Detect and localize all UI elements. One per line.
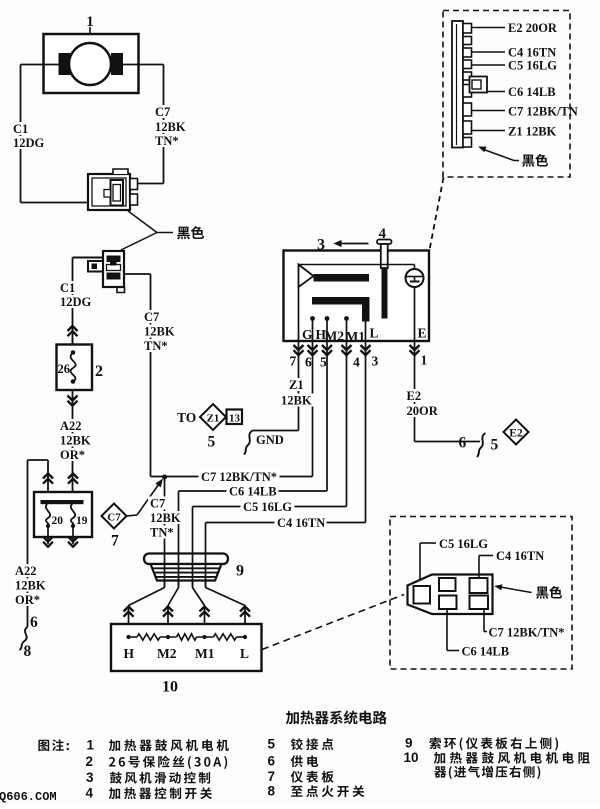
switch element 19 <box>71 503 75 526</box>
svg-text:5: 5 <box>320 355 327 370</box>
legend 8: to ignition switch <box>291 785 364 797</box>
svg-text:12BK: 12BK <box>281 394 312 408</box>
connector cavity top-left <box>439 578 456 591</box>
motor armature circle <box>69 43 111 85</box>
arrows below slide control left <box>43 537 53 542</box>
leader Z1 12BK <box>472 130 506 132</box>
diamond C7 (instrument panel) <box>102 504 127 529</box>
svg-text:C7: C7 <box>107 512 121 524</box>
svg-text:C1: C1 <box>60 281 75 295</box>
leader to black label <box>481 149 514 161</box>
connector A center plug <box>111 180 124 206</box>
wiper wedge contact <box>299 265 314 288</box>
connector comb spine <box>452 21 463 148</box>
svg-text:2: 2 <box>95 363 103 380</box>
svg-text:6: 6 <box>305 355 312 370</box>
wire C1 into connector B <box>73 257 104 259</box>
wire from C7 diamond <box>127 515 138 516</box>
svg-text:C1: C1 <box>13 122 28 136</box>
wire 4 through grommet <box>205 554 207 588</box>
svg-text:4: 4 <box>353 355 360 370</box>
svg-text:26: 26 <box>58 362 71 376</box>
wire fan to M1 <box>193 588 205 606</box>
label A22 <box>13 564 41 577</box>
connector A right tab upper <box>130 179 138 190</box>
dashed detail box (switch connector) <box>443 11 570 178</box>
svg-text:10: 10 <box>162 679 178 696</box>
label 12BK <box>58 434 93 447</box>
svg-text:E2: E2 <box>509 428 523 440</box>
wire from pin 6 H down <box>312 341 314 477</box>
label TN* near diamond <box>148 526 174 539</box>
switch inner feed line <box>299 264 415 266</box>
arrowhead for label 3 <box>334 240 342 247</box>
arrowhead at connector <box>494 584 502 590</box>
comb terminal tooth <box>463 72 472 80</box>
leader black arrow <box>498 587 532 593</box>
legend 3: blower slide control <box>110 772 210 784</box>
svg-text:OR*: OR* <box>60 448 85 462</box>
wire from pin 5 M2 down <box>326 341 328 491</box>
connector chevrons at switch pin <box>410 345 420 350</box>
svg-text:Z1 12BK: Z1 12BK <box>508 125 557 139</box>
wire C7 12BK/TN down <box>150 274 152 477</box>
leader C4 16TN horizontal <box>479 555 493 557</box>
terminal 20 <box>46 524 50 528</box>
svg-text:C5 16LG: C5 16LG <box>439 537 488 551</box>
connector chevrons at switch pin <box>322 345 332 350</box>
label 20OR <box>405 404 439 417</box>
svg-text:4: 4 <box>86 786 94 801</box>
svg-text:A22: A22 <box>60 419 82 433</box>
dashed leader to switch <box>430 178 444 251</box>
resistor bus segment <box>237 636 246 638</box>
svg-text:12DG: 12DG <box>13 136 45 150</box>
svg-text:M1: M1 <box>346 329 366 344</box>
wire stub above slide control left <box>47 460 49 492</box>
wire below slide control left <box>47 526 49 544</box>
legend 4: heater control switch <box>109 787 212 799</box>
svg-text:6: 6 <box>459 435 467 452</box>
fuse element S-curve <box>71 353 76 382</box>
leader C6 14LB <box>487 91 505 93</box>
arrowhead at junction <box>155 479 163 488</box>
connector chevrons at switch pin <box>342 345 352 350</box>
comb spine inner line <box>456 24 458 145</box>
svg-text:12BK: 12BK <box>15 579 46 593</box>
illumination lamp <box>406 269 424 287</box>
svg-text:H: H <box>124 646 135 661</box>
hinge point squiggle <box>477 433 486 457</box>
arrowhead at comb <box>478 147 487 153</box>
svg-text:9: 9 <box>405 736 413 751</box>
svg-text:C7: C7 <box>155 105 170 119</box>
grommet body <box>151 564 222 581</box>
leader C5 16LG vertical <box>419 543 421 580</box>
comb terminal tooth <box>463 24 472 34</box>
dashed leader to resistor connector detail <box>262 595 404 650</box>
connector A housing (upper black connector) <box>88 174 130 210</box>
svg-text:7: 7 <box>268 769 276 784</box>
label 12BK <box>279 394 314 407</box>
label C1 <box>11 122 29 135</box>
svg-text:L: L <box>240 646 249 661</box>
label C5 16LG <box>241 499 295 514</box>
leader C5 16LG horizontal <box>420 542 436 544</box>
svg-text:G: G <box>302 327 313 342</box>
leader C7 12BK/TN* horizontal <box>484 631 487 633</box>
slide control contact bar <box>41 500 84 504</box>
wire C1 12DG vertical <box>20 65 22 203</box>
connector A right tab lower <box>130 194 138 205</box>
hinge squiggle to ignition <box>20 627 28 650</box>
wire C7 12BK/TN horizontal into connector <box>137 183 164 185</box>
wire into resistor H <box>128 607 130 638</box>
svg-text:C7 12BK/TN*: C7 12BK/TN* <box>489 626 565 640</box>
legend heading <box>38 739 68 751</box>
connector B housing (lower connector) <box>103 251 124 287</box>
label black (hei se) <box>536 586 562 599</box>
wire fan to L <box>206 588 246 606</box>
legend 1: heater blower motor <box>109 739 229 751</box>
leader C4 16TN <box>472 51 506 53</box>
blower motor resistor box (component 10) <box>111 624 262 671</box>
svg-text:6: 6 <box>30 614 38 631</box>
wire into resistor M2 <box>167 607 169 638</box>
connector B left tab <box>88 261 103 272</box>
chevrons at resistor L input <box>240 607 250 612</box>
terminal 19 <box>71 524 75 528</box>
screw T-handle (component 4) <box>377 240 392 245</box>
resistor element M1-L <box>214 634 237 640</box>
resistor terminal <box>166 635 170 639</box>
label 12BK near diamond <box>148 511 183 524</box>
motor brush left <box>59 53 71 75</box>
leader C4 16TN vertical <box>478 556 480 579</box>
connector B terminal top <box>107 256 121 263</box>
grommet ridge 1 <box>153 567 220 569</box>
comb terminal tooth <box>463 138 472 148</box>
label E2 <box>405 389 423 402</box>
wire fan to H <box>129 588 165 606</box>
switch feed to lamp <box>414 265 416 270</box>
leader E2 20OR <box>472 27 506 29</box>
leader connector A to black label <box>128 211 157 233</box>
connector B bottom-right step <box>117 287 125 293</box>
svg-text:M2: M2 <box>325 329 345 344</box>
svg-text:Z1: Z1 <box>207 413 220 425</box>
arrows below slide control right <box>68 537 78 542</box>
connector chevrons above fuse <box>68 326 78 331</box>
svg-text:3: 3 <box>86 770 94 785</box>
svg-text:Q606.COM: Q606.COM <box>0 790 57 804</box>
svg-text:C4 16TN: C4 16TN <box>496 549 544 563</box>
resistor terminal <box>243 635 247 639</box>
svg-text:OR*: OR* <box>15 593 40 607</box>
diamond Z1 (ground net) <box>200 404 226 430</box>
resistor bus segment <box>197 636 214 638</box>
connector B terminal bottom <box>107 273 121 280</box>
svg-text:5: 5 <box>491 437 499 454</box>
junction node C7 <box>162 475 167 480</box>
connector B key square <box>110 261 117 266</box>
svg-text:E: E <box>418 326 427 341</box>
leader horizontal <box>514 160 519 162</box>
label 12BK <box>142 325 177 338</box>
wire diagonal to junction <box>137 483 160 516</box>
svg-text:C7: C7 <box>144 310 159 324</box>
leader C7 12BK/TN <box>472 110 506 112</box>
ground reference box 13 <box>227 410 243 425</box>
label 12DG <box>58 295 93 308</box>
connector chevrons below fuse <box>68 396 78 401</box>
chevrons above slide control right <box>68 474 78 479</box>
chevrons at resistor M2 input <box>163 607 173 612</box>
svg-text:TN*: TN* <box>155 134 179 148</box>
grommet ridge 3 <box>156 576 217 578</box>
wire node H to pin <box>312 319 314 342</box>
label C7 <box>153 105 171 118</box>
svg-text:Z1: Z1 <box>289 378 304 392</box>
wire from pin 3 L down <box>365 341 367 523</box>
svg-text:C4 16TN: C4 16TN <box>508 46 556 60</box>
svg-text:8: 8 <box>24 643 32 660</box>
resistor element M2-M1 <box>177 634 197 640</box>
connector chevrons at switch pin <box>361 345 371 350</box>
comb terminal tooth <box>463 48 472 57</box>
svg-text:20: 20 <box>52 515 64 527</box>
svg-text:C7: C7 <box>150 497 165 511</box>
svg-text:8: 8 <box>268 784 276 799</box>
switch node M2 <box>325 316 330 321</box>
wire E2 20OR down <box>414 341 416 442</box>
label 12BK <box>153 120 188 133</box>
wire fan to M2 <box>168 588 179 606</box>
wire C7 12BK/TN* horizontal <box>151 476 313 478</box>
wire lamp E to pin <box>414 287 416 341</box>
fuse 26 box (component 2) <box>57 345 93 391</box>
svg-text:5: 5 <box>208 434 216 451</box>
wire wiper G to pin <box>298 286 300 341</box>
leader horizontal to black label <box>157 232 173 234</box>
svg-text:19: 19 <box>76 515 88 527</box>
svg-text:C5 16LG: C5 16LG <box>508 59 557 73</box>
wire motor right lead <box>123 64 164 66</box>
chevrons at resistor M1 input <box>200 607 210 612</box>
comb terminal tooth <box>463 60 472 69</box>
grommet (component 9) top flange <box>144 554 228 565</box>
svg-text:C4 16TN: C4 16TN <box>277 516 325 530</box>
diamond E2 <box>504 420 529 445</box>
svg-text:2: 2 <box>86 754 94 769</box>
leader connector B to black label <box>121 233 157 251</box>
label 12BK <box>13 579 48 592</box>
svg-text:TN*: TN* <box>150 526 174 540</box>
label TN* <box>153 134 179 147</box>
connector cavity bottom-right <box>470 596 489 610</box>
motor brush right <box>111 53 123 75</box>
svg-text:L: L <box>370 326 379 341</box>
contact bar upper (slider track) <box>314 274 370 282</box>
svg-text:C7 12BK/TN*: C7 12BK/TN* <box>201 470 277 484</box>
wire C6 14LB horizontal <box>179 490 328 492</box>
leader from label 1 <box>89 27 91 34</box>
legend 6: power feed <box>291 755 318 767</box>
connector chevrons at switch pin <box>294 345 304 350</box>
svg-text:9: 9 <box>236 563 244 580</box>
svg-text:M1: M1 <box>195 646 215 661</box>
legend 7: instrument panel <box>291 771 334 783</box>
wire C1 12DG horizontal into connector <box>21 202 89 204</box>
lamp filament tick <box>414 277 416 282</box>
blower slide control box 20/19 <box>34 492 92 537</box>
label 12DG <box>11 136 46 149</box>
svg-text:C6 14LB: C6 14LB <box>462 645 510 659</box>
leader C5 16LG <box>472 64 506 66</box>
resistor connector body <box>408 575 493 615</box>
label TN* <box>142 339 168 352</box>
wire below slide control right <box>72 526 74 544</box>
label C6 14LB <box>227 484 279 499</box>
resistor terminal <box>202 635 206 639</box>
wire C5 16LG horizontal <box>193 506 347 508</box>
label C1 <box>58 281 76 294</box>
wire into resistor M1 <box>204 607 206 638</box>
resistor bus segment <box>129 636 138 638</box>
svg-text:3: 3 <box>317 237 325 254</box>
wire node L to pin <box>365 322 367 342</box>
svg-text:12BK: 12BK <box>144 325 175 339</box>
svg-text:20OR: 20OR <box>407 404 439 418</box>
fuse terminal bottom <box>71 379 76 384</box>
svg-text:M2: M2 <box>157 646 177 661</box>
resistor bus segment <box>160 636 177 638</box>
svg-text:12BK: 12BK <box>60 434 91 448</box>
connector A top notch <box>113 169 128 174</box>
dashed detail box (resistor connector) <box>390 517 572 670</box>
label Z1 <box>287 378 305 391</box>
label C7 near diamond <box>148 497 166 510</box>
label OR* <box>58 448 86 461</box>
wire 2 down to grommet <box>178 491 180 588</box>
wire C7 out of connector B <box>124 273 151 275</box>
wire 3 down to grommet <box>192 507 194 588</box>
wire C1 12DG down to fuse <box>72 258 74 345</box>
connector cavity top-right <box>470 578 488 593</box>
wire node M1 to pin <box>346 319 348 342</box>
wire into resistor L <box>244 607 246 638</box>
label C7 <box>142 310 160 323</box>
svg-text:1: 1 <box>421 353 428 368</box>
switch element 20 <box>46 503 50 526</box>
resistor terminal <box>126 635 130 639</box>
legend 9: grommet <box>430 737 559 750</box>
wire motor left lead <box>21 64 59 66</box>
svg-text:10: 10 <box>404 750 419 765</box>
legend 5: hinge point <box>291 738 334 750</box>
svg-text:12DG: 12DG <box>60 295 92 309</box>
grommet ridge 2 <box>154 572 218 574</box>
svg-text:7: 7 <box>111 533 119 550</box>
contact bar lower L-shaped <box>312 297 370 322</box>
label black (hei se) <box>177 226 204 239</box>
wire Z1 12BK horizontal to splice <box>253 430 299 432</box>
wire A22 12BK OR down <box>72 390 74 492</box>
leader C7 12BK/TN* vertical <box>483 609 485 632</box>
wire bend to left column <box>28 459 49 461</box>
wire stub into fuse <box>72 338 74 345</box>
legend 2: fuse 26 30A <box>109 756 227 769</box>
wire A22 left column down <box>27 460 29 627</box>
svg-text:GND: GND <box>256 433 284 447</box>
wire C7 12BK/TN vertical <box>163 65 165 184</box>
svg-text:5: 5 <box>268 737 276 752</box>
connector cavity bottom-left <box>439 596 457 610</box>
wire E2 20OR horizontal <box>415 441 481 443</box>
legend 10 line 2 <box>434 766 540 779</box>
svg-text:E2 20OR: E2 20OR <box>508 21 558 35</box>
legend 10 line 1: heater blower motor resistor <box>434 752 590 764</box>
lamp filament chord <box>407 276 423 278</box>
label OR* <box>13 593 41 606</box>
wire 2 through grommet <box>178 554 180 588</box>
chevrons at resistor H input <box>124 607 134 612</box>
comb terminal tooth <box>463 37 472 45</box>
label C4 16TN <box>275 515 327 530</box>
connector cavity left <box>414 586 431 604</box>
svg-text:7: 7 <box>290 354 297 369</box>
leader C6 14LB vertical <box>446 609 448 651</box>
switch node M1 <box>344 316 349 321</box>
wire 1 through grommet <box>164 554 166 588</box>
comb side lug <box>470 77 488 93</box>
svg-text:3: 3 <box>372 354 379 369</box>
wire node M2 to pin <box>326 319 328 342</box>
resistor element H-M2 <box>137 634 160 640</box>
svg-text:6: 6 <box>268 754 276 769</box>
wire from pin 4 M1 down <box>346 341 348 507</box>
screw shaft outline <box>381 244 388 268</box>
fuse terminal top <box>71 350 76 355</box>
hinge point squiggle 5 at GND <box>244 431 253 455</box>
leader C6 14LB horizontal <box>447 650 459 652</box>
chevrons above slide control left <box>43 474 53 479</box>
comb terminal tooth <box>463 103 472 116</box>
comb terminal tooth <box>463 85 472 98</box>
lamp filament dash <box>410 281 420 283</box>
label C7 12BK/TN* <box>199 469 280 484</box>
wire 4 down to grommet <box>205 523 207 588</box>
arrow shaft for label 3 <box>339 243 369 245</box>
heater control switch box (component 3) <box>284 251 430 342</box>
connector B terminal mid <box>107 265 121 271</box>
wire Z1 12BK from pin 7 <box>298 341 300 431</box>
label A22 <box>58 419 86 432</box>
svg-text:13: 13 <box>229 413 241 425</box>
slider solid bar (component 4) <box>382 268 388 319</box>
svg-text:E2: E2 <box>407 389 422 403</box>
wire C4 16TN horizontal <box>206 522 366 524</box>
svg-text:C6 14LB: C6 14LB <box>229 485 277 499</box>
blower motor M housing <box>44 34 139 93</box>
title: heater system circuit <box>286 711 387 725</box>
wire 1 down to grommet <box>164 477 166 588</box>
label black (hei se) <box>522 154 548 167</box>
connector chevrons at switch pin <box>308 345 318 350</box>
svg-text:12BK: 12BK <box>155 120 186 134</box>
svg-text:TN*: TN* <box>144 339 168 353</box>
svg-text:C7 12BK/TN: C7 12BK/TN <box>508 105 578 119</box>
